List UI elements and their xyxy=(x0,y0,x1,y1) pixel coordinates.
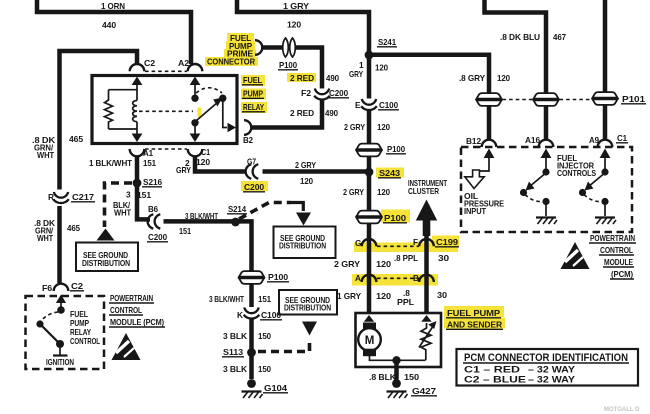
svg-text:F: F xyxy=(413,237,418,247)
svg-text:.8 BLK: .8 BLK xyxy=(369,372,396,382)
svg-text:C2: C2 xyxy=(71,281,84,291)
svg-text:CONNECTOR: CONNECTOR xyxy=(207,57,255,67)
svg-text:F2: F2 xyxy=(301,88,312,98)
svg-text:3: 3 xyxy=(126,190,131,200)
svg-text:B6: B6 xyxy=(148,204,158,214)
svg-text:2 GRY: 2 GRY xyxy=(295,160,316,170)
svg-text:C200: C200 xyxy=(244,182,264,192)
svg-text:S214: S214 xyxy=(228,204,246,214)
svg-text:G104: G104 xyxy=(264,383,288,393)
svg-text:DISTRIBUTION: DISTRIBUTION xyxy=(279,241,326,251)
svg-text:A2: A2 xyxy=(178,58,190,68)
svg-text:PUMP: PUMP xyxy=(243,89,263,99)
svg-text:.8 DK BLU: .8 DK BLU xyxy=(500,32,540,42)
svg-text:3 BLK: 3 BLK xyxy=(223,331,247,341)
svg-text:S241: S241 xyxy=(378,37,396,47)
svg-text:WHT: WHT xyxy=(37,233,53,243)
svg-text:– 32 WAY: – 32 WAY xyxy=(528,375,576,386)
svg-text:G7: G7 xyxy=(247,157,256,167)
svg-text:2 RED: 2 RED xyxy=(290,73,314,83)
svg-text:.8 PPL: .8 PPL xyxy=(394,253,418,263)
svg-text:F6: F6 xyxy=(42,283,53,293)
svg-text:120: 120 xyxy=(375,63,388,73)
svg-text:A9: A9 xyxy=(589,135,599,145)
svg-text:A: A xyxy=(355,273,361,283)
svg-text:P101: P101 xyxy=(622,94,646,104)
svg-text:120: 120 xyxy=(287,20,301,30)
svg-text:WHT: WHT xyxy=(114,208,131,218)
svg-text:PPL: PPL xyxy=(397,297,414,307)
svg-text:K: K xyxy=(237,310,243,320)
svg-text:2 GRY: 2 GRY xyxy=(343,187,364,197)
svg-text:P100: P100 xyxy=(387,144,405,154)
svg-text:FUEL PUMP: FUEL PUMP xyxy=(447,308,501,318)
svg-text:151: 151 xyxy=(258,294,271,304)
svg-text:3 BLK/WHT: 3 BLK/WHT xyxy=(209,294,244,304)
svg-text:MODULE (PCM): MODULE (PCM) xyxy=(110,317,164,327)
svg-text:150: 150 xyxy=(258,364,271,374)
svg-text:150: 150 xyxy=(404,372,420,382)
svg-text:CLUSTER: CLUSTER xyxy=(408,186,439,196)
svg-text:150: 150 xyxy=(258,331,271,341)
svg-text:P100: P100 xyxy=(268,272,289,282)
svg-text:1 BLK/WHT: 1 BLK/WHT xyxy=(89,158,132,168)
svg-text:A1: A1 xyxy=(143,148,153,158)
svg-text:AND SENDER: AND SENDER xyxy=(447,320,502,330)
svg-text:C200: C200 xyxy=(329,88,348,98)
svg-text:3 BLK: 3 BLK xyxy=(223,364,247,374)
svg-text:490: 490 xyxy=(326,73,339,83)
svg-text:P100: P100 xyxy=(384,213,407,223)
svg-text:30: 30 xyxy=(437,290,448,300)
svg-text:S216: S216 xyxy=(143,177,162,187)
svg-text:MODULE: MODULE xyxy=(604,257,633,267)
svg-text:GRY: GRY xyxy=(176,165,191,175)
svg-text:120: 120 xyxy=(300,176,313,186)
svg-text:C2 – BLUE: C2 – BLUE xyxy=(464,375,527,386)
svg-text:.8 GRY: .8 GRY xyxy=(459,73,486,83)
svg-text:2 RED: 2 RED xyxy=(290,108,314,118)
svg-text:3 BLK/WHT: 3 BLK/WHT xyxy=(185,211,218,221)
svg-text:POWERTRAIN: POWERTRAIN xyxy=(110,293,153,303)
svg-text:C2: C2 xyxy=(144,58,156,68)
svg-text:120: 120 xyxy=(377,187,390,197)
svg-text:POWERTRAIN: POWERTRAIN xyxy=(590,233,635,243)
svg-text:C199: C199 xyxy=(436,237,459,247)
svg-text:120: 120 xyxy=(376,291,392,301)
svg-text:120: 120 xyxy=(376,259,392,269)
svg-text:2 GRY: 2 GRY xyxy=(344,122,365,132)
svg-text:B2: B2 xyxy=(243,135,253,145)
svg-text:S243: S243 xyxy=(379,168,401,178)
svg-text:C100: C100 xyxy=(379,100,398,110)
svg-text:CONTROL: CONTROL xyxy=(600,245,633,255)
svg-text:FUEL: FUEL xyxy=(243,75,262,85)
svg-text:1 GRY: 1 GRY xyxy=(337,291,362,301)
svg-text:R: R xyxy=(48,192,54,202)
svg-text:C217: C217 xyxy=(72,192,95,202)
svg-text:C100: C100 xyxy=(261,310,281,320)
svg-text:C200: C200 xyxy=(148,232,167,242)
svg-text:C1: C1 xyxy=(617,133,627,143)
svg-text:465: 465 xyxy=(69,134,83,144)
svg-text:B12: B12 xyxy=(466,136,481,146)
svg-text:151: 151 xyxy=(179,226,191,236)
svg-text:DISTRIBUTION: DISTRIBUTION xyxy=(82,258,130,268)
svg-text:GRY: GRY xyxy=(349,69,363,79)
svg-text:1 GRY: 1 GRY xyxy=(283,1,310,11)
svg-text:MOTOALL D: MOTOALL D xyxy=(604,407,640,413)
svg-text:120: 120 xyxy=(497,73,510,83)
svg-text:(PCM): (PCM) xyxy=(611,269,633,279)
svg-text:INPUT: INPUT xyxy=(464,206,486,216)
svg-text:DISTRIBUTION: DISTRIBUTION xyxy=(284,303,331,313)
svg-text:CONTROL: CONTROL xyxy=(70,336,100,346)
svg-text:G427: G427 xyxy=(412,386,437,396)
svg-text:490: 490 xyxy=(325,108,338,118)
svg-text:IGNITION: IGNITION xyxy=(46,357,74,367)
svg-text:2 GRY: 2 GRY xyxy=(334,259,361,269)
svg-text:M: M xyxy=(365,335,375,347)
svg-text:120: 120 xyxy=(196,157,210,167)
svg-text:30: 30 xyxy=(438,253,450,263)
svg-text:B: B xyxy=(413,273,419,283)
svg-text:151: 151 xyxy=(143,158,156,168)
svg-text:P100: P100 xyxy=(279,60,297,70)
svg-text:A16: A16 xyxy=(525,135,540,145)
svg-text:WHT: WHT xyxy=(37,150,54,160)
svg-text:S113: S113 xyxy=(223,347,244,357)
svg-text:151: 151 xyxy=(137,190,151,200)
svg-text:RELAY: RELAY xyxy=(243,102,264,112)
svg-text:G: G xyxy=(355,238,361,248)
svg-text:CONTROL: CONTROL xyxy=(110,305,142,315)
svg-text:467: 467 xyxy=(553,32,566,42)
svg-text:CONTROLS: CONTROLS xyxy=(557,168,596,178)
svg-text:120: 120 xyxy=(377,122,390,132)
svg-text:465: 465 xyxy=(67,223,80,233)
svg-text:E: E xyxy=(355,100,361,110)
svg-text:1 ORN: 1 ORN xyxy=(101,1,125,11)
svg-text:440: 440 xyxy=(102,20,116,30)
svg-text:C1: C1 xyxy=(201,147,210,157)
